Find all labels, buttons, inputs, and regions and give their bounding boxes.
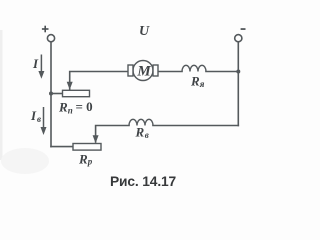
arrow wiper Rr (93, 135, 99, 143)
label plus sign (42, 26, 49, 33)
svg-text:U: U (139, 24, 150, 39)
terminal minus (235, 35, 242, 42)
svg-text:I: I (30, 108, 37, 123)
wire junction stub to Rp box (51, 93, 63, 95)
arrow current I (40, 55, 42, 73)
scan artifact: left edge streak (0, 30, 3, 160)
scan artifact: bottom-left blob (1, 148, 49, 174)
svg-text:= 0: = 0 (76, 99, 93, 114)
rheostat Rp box (63, 90, 90, 96)
svg-text:R: R (78, 151, 88, 166)
motor M circle (133, 61, 153, 81)
svg-text:в: в (145, 130, 149, 140)
wire bottom left horizontal (51, 146, 73, 148)
motor brush right (153, 65, 158, 76)
wire bottom right horizontal (153, 125, 238, 127)
label minus sign (241, 28, 246, 30)
svg-text:M: M (136, 63, 151, 79)
node junction left (49, 92, 53, 96)
inductor R_v (129, 119, 153, 125)
motor brush left (128, 65, 133, 76)
arrow current I_v (43, 107, 45, 128)
rheostat Rr box (73, 144, 101, 151)
svg-text:в: в (37, 114, 41, 124)
svg-text:R: R (190, 73, 200, 88)
svg-text:R: R (58, 99, 68, 114)
wire R_v coil to Rr wiper corner (96, 126, 129, 143)
inductor R_ya (182, 65, 206, 71)
svg-text:Рис. 14.17: Рис. 14.17 (110, 174, 177, 189)
svg-text:р: р (87, 157, 93, 167)
terminal plus (47, 35, 54, 42)
svg-text:I: I (32, 56, 39, 71)
node junction right (236, 70, 240, 74)
wire left vertical (50, 42, 52, 147)
wire right vertical (237, 42, 239, 126)
wire armature top: corner to motor (70, 72, 128, 91)
svg-text:я: я (199, 79, 205, 89)
svg-text:R: R (135, 124, 145, 139)
wire motor to R_ya coil (158, 71, 182, 73)
arrow wiper Rp (67, 82, 73, 90)
svg-text:п: п (68, 105, 73, 115)
wire R_ya coil to right node (206, 71, 238, 73)
